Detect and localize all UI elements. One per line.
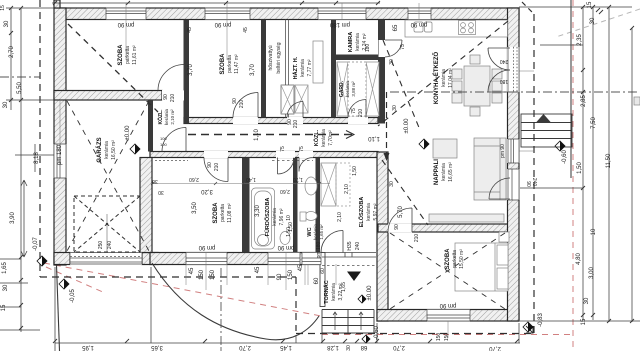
- garage door opening: [70, 252, 142, 265]
- dim label 3,00 at 593,273: [589, 267, 595, 279]
- dim label 180 at 504,80: [500, 78, 509, 84]
- roof diagonal szoba1: [68, 24, 158, 112]
- svg-text:30: 30: [389, 59, 395, 65]
- wc toilet: [305, 212, 317, 221]
- svg-text:3,20: 3,20: [201, 188, 213, 194]
- svg-text:ELŐSZOBA: ELŐSZOBA: [358, 197, 365, 228]
- svg-text:1,28: 1,28: [327, 344, 339, 350]
- wall hazt east: [331, 20, 336, 118]
- label pm000 nappali: [404, 118, 410, 134]
- level mark -060 right: [555, 141, 565, 151]
- door arc hazt: [287, 102, 303, 118]
- svg-text:30: 30: [389, 181, 395, 187]
- label heatpump: [268, 42, 282, 73]
- washbasin furdo: [280, 232, 290, 245]
- svg-text:180: 180: [365, 44, 371, 53]
- dim label pm 90 at 419,23: [410, 21, 427, 27]
- door arcs french kitchen: [488, 48, 510, 70]
- shaft niche lines: [286, 20, 289, 118]
- dim label 1,28 at 333,346: [327, 344, 339, 350]
- svg-text:pm 90: pm 90: [439, 302, 456, 308]
- dim label 7,50 at 595,123: [591, 117, 597, 129]
- svg-text:30: 30: [590, 17, 596, 24]
- label nappali: [434, 159, 454, 185]
- svg-text:2,60: 2,60: [280, 188, 290, 194]
- door arc wc: [299, 158, 313, 172]
- dim label 45 at 259,270: [255, 266, 261, 273]
- window top 1: [106, 8, 146, 21]
- dim label 5,70 at 402,212: [398, 206, 404, 218]
- svg-text:11,50: 11,50: [606, 153, 612, 168]
- svg-text:kerámia: kerámia: [164, 109, 169, 126]
- dim label 60 at 324,271: [320, 268, 326, 274]
- dim label 1,10 at 374,137: [368, 135, 380, 141]
- dim label 30 at 594,21: [590, 17, 596, 24]
- gard wardrobe 2: [366, 62, 379, 116]
- svg-text:1,70: 1,70: [293, 176, 303, 182]
- svg-text:pm 180: pm 180: [57, 144, 63, 165]
- svg-text:2,70: 2,70: [239, 344, 251, 350]
- level mark -005: [59, 279, 69, 289]
- svg-text:HÁZT. H.: HÁZT. H.: [292, 56, 299, 79]
- entry door porch: [322, 253, 376, 258]
- section line left: [0, 76, 40, 78]
- svg-text:2,70: 2,70: [393, 344, 405, 350]
- svg-text:17,04 m²: 17,04 m²: [448, 68, 454, 88]
- svg-text:5,97 m²: 5,97 m²: [373, 203, 379, 220]
- door corridor to wc: [299, 151, 313, 158]
- dim label pm 180 at 320,250: [316, 241, 322, 258]
- chairs left: [452, 69, 462, 79]
- svg-text:180: 180: [500, 78, 509, 84]
- svg-text:90: 90: [277, 273, 283, 280]
- svg-text:SZOBA: SZOBA: [118, 44, 124, 66]
- wall wc/eloszoba: [316, 158, 321, 253]
- svg-text:1,50: 1,50: [352, 166, 358, 176]
- dim connectors right: [519, 7, 640, 321]
- window top 4: [408, 8, 431, 21]
- svg-text:KONYHA-ÉTKEZŐ: KONYHA-ÉTKEZŐ: [432, 52, 440, 105]
- svg-text:45: 45: [298, 264, 304, 271]
- left margin dims: [4, 20, 10, 27]
- dim label -0,60 at 378,333: [374, 326, 380, 340]
- svg-text:TORNÁC: TORNÁC: [323, 280, 330, 303]
- bed: [455, 243, 508, 291]
- window south bedroom: [427, 309, 470, 322]
- svg-text:75: 75: [299, 146, 305, 152]
- wc sink: [305, 177, 317, 195]
- svg-text:2,70: 2,70: [9, 46, 15, 58]
- dim label 1,70 at 282,178: [293, 176, 303, 182]
- dim label 90 at 236,101: [232, 98, 238, 104]
- svg-text:2,10: 2,10: [344, 184, 350, 194]
- svg-text:150: 150: [199, 269, 205, 280]
- dining table: [464, 66, 490, 106]
- interior dims: [188, 64, 194, 76]
- svg-text:beltéri egység: beltéri egység: [276, 42, 282, 73]
- svg-text:210: 210: [414, 234, 420, 243]
- eave dashed south garage: [40, 276, 296, 278]
- label gard: [339, 80, 356, 97]
- kitchen counter: [405, 20, 508, 37]
- dim ticks right: [581, 5, 634, 323]
- wall furdo/wc: [293, 158, 298, 253]
- svg-text:7,50: 7,50: [591, 117, 597, 129]
- wardrobe eloszoba: [321, 163, 336, 206]
- svg-text:SZOBA: SZOBA: [220, 53, 226, 75]
- svg-text:90: 90: [394, 224, 400, 230]
- svg-text:150: 150: [288, 269, 294, 280]
- sink: [414, 22, 423, 32]
- svg-text:10: 10: [286, 215, 292, 221]
- dim label 150 at 448,337: [444, 333, 450, 342]
- eave dashed east: [533, 14, 535, 334]
- wall tornac west: [320, 253, 325, 307]
- door labels: [163, 94, 169, 100]
- dim label 2,70 at 495,347: [489, 345, 501, 351]
- dim label 1,50 at 292,227: [288, 222, 294, 232]
- dim label 1,45 at 286,346: [280, 344, 292, 350]
- svg-text:kerámia: kerámia: [355, 33, 361, 51]
- dim label 3,50 at 196,208: [192, 202, 198, 214]
- dim label 90 at 211,165: [207, 162, 213, 168]
- svg-text:240: 240: [531, 178, 537, 187]
- svg-text:FÜRDŐSZOBA: FÜRDŐSZOBA: [264, 198, 271, 237]
- dim label 210 at 243,104: [239, 100, 245, 109]
- dim label 68 at 364,346: [360, 344, 367, 350]
- dim label 150 at 214,275: [210, 269, 216, 280]
- section line right: [390, 91, 640, 93]
- dim label 30 at 588,301: [584, 297, 590, 304]
- eave dashed corner NE: [522, 2, 534, 14]
- eave dashed tornac vertical: [295, 277, 297, 331]
- label szoba3: [213, 202, 233, 224]
- svg-text:250: 250: [98, 241, 104, 250]
- eave dashed south east: [296, 333, 534, 335]
- car dashed box: [74, 196, 140, 252]
- svg-text:2,70: 2,70: [489, 345, 501, 351]
- svg-text:-0,60: -0,60: [562, 150, 568, 164]
- door arc kamra: [385, 40, 402, 57]
- svg-text:68: 68: [360, 344, 367, 350]
- label kozl2: [157, 109, 175, 126]
- wall east: [508, 8, 520, 321]
- svg-text:65: 65: [393, 24, 399, 31]
- svg-text:-0,05: -0,05: [70, 289, 76, 303]
- window east nappali: [507, 139, 520, 163]
- dim label 210 at 418,238: [414, 234, 420, 243]
- dim label 2,10 at 341,217: [337, 212, 343, 222]
- svg-text:pm 90: pm 90: [277, 244, 294, 250]
- dim chain left inner: [11, 8, 21, 332]
- driveway axis: [220, 268, 222, 347]
- door arc szoba1: [158, 65, 184, 91]
- svg-text:8,18: 8,18: [34, 152, 40, 164]
- south facade dim extenders: [186, 264, 336, 285]
- svg-text:SZOBA: SZOBA: [445, 248, 451, 270]
- label hazt: [292, 56, 313, 79]
- svg-text:1,65: 1,65: [2, 262, 8, 274]
- dim label -0,05 at 74,296: [70, 289, 76, 303]
- wall west of bedroom block: [377, 152, 388, 321]
- svg-text:210: 210: [239, 100, 245, 109]
- dim label 90 at 291,122: [287, 119, 293, 125]
- east wall labels: [500, 144, 506, 158]
- door corridor to szoba2: [233, 117, 258, 124]
- dim label 180 at 369,48: [365, 44, 371, 53]
- dim label 150 at 440,337: [436, 333, 442, 342]
- window top 3: [318, 8, 366, 21]
- svg-text:45: 45: [243, 27, 249, 33]
- svg-text:parketta: parketta: [125, 46, 131, 64]
- dim extenders bottom: [55, 267, 519, 351]
- svg-text:75: 75: [280, 146, 286, 152]
- svg-text:210: 210: [214, 163, 220, 172]
- label konyha: [432, 52, 454, 105]
- svg-text:2,60: 2,60: [189, 176, 199, 182]
- left garage door label: [57, 144, 63, 165]
- svg-text:1,95: 1,95: [82, 344, 94, 350]
- svg-text:30: 30: [4, 20, 10, 27]
- svg-text:90: 90: [232, 98, 238, 104]
- dim label 2,70 at 399,346: [393, 344, 405, 350]
- dim label 75 at 303,164: [299, 146, 305, 152]
- wall nappali/szoba4: [378, 224, 508, 232]
- svg-text:pm 90: pm 90: [410, 21, 427, 27]
- door arc nappali-szoba4: [388, 208, 412, 232]
- top window labels reversed: [117, 21, 134, 27]
- dim label 1,50 at 290,232: [286, 227, 292, 237]
- wall garage east lower: [140, 158, 152, 253]
- hazt washer: [295, 85, 308, 113]
- wall corridor north: [184, 118, 378, 124]
- wall garage east upper: [148, 100, 153, 152]
- svg-text:pm 180: pm 180: [316, 241, 322, 258]
- svg-text:kerámia: kerámia: [331, 283, 337, 301]
- hazt counter: [313, 41, 323, 83]
- dim label 30 at 350,348: [346, 345, 352, 351]
- roof diagonal szoba4 X: [390, 233, 505, 309]
- tv board: [429, 214, 504, 222]
- label kamra: [348, 32, 368, 52]
- svg-text:±0.00: ±0.00: [125, 125, 131, 141]
- dim label 1,10 at 258,135: [254, 129, 260, 141]
- red dashed boundary right: [572, 0, 574, 351]
- dim label 210 at 218,167: [214, 163, 220, 172]
- dim label 30 at 393,184: [389, 181, 395, 187]
- dim label 75 at 355,111: [351, 108, 357, 114]
- svg-text:-0,07: -0,07: [33, 237, 39, 251]
- sofa: [474, 138, 506, 200]
- window south 2: [268, 252, 300, 265]
- dim label pm 90 at 223,23: [214, 21, 231, 27]
- svg-text:30: 30: [158, 189, 164, 195]
- svg-text:150: 150: [436, 333, 442, 342]
- dim label 2,10 at 348,189: [344, 184, 350, 194]
- svg-text:7,70m²: 7,70m²: [328, 130, 334, 146]
- svg-text:3,70: 3,70: [250, 64, 256, 76]
- svg-text:60: 60: [320, 268, 326, 274]
- dim label 15 at 4,8: [0, 5, 6, 11]
- bottom dims upside down: [82, 344, 94, 350]
- corridor centerline: [188, 134, 352, 136]
- door left garage side: [54, 144, 67, 178]
- level mark tornac: [358, 295, 366, 303]
- roof diagonal garage X: [67, 101, 149, 251]
- porch dotted edge: [322, 265, 376, 267]
- svg-text:10: 10: [591, 228, 597, 235]
- wall south garage: [54, 253, 70, 265]
- dim label 45 at 247,30: [243, 27, 249, 33]
- label szoba2: [220, 53, 240, 75]
- svg-text:5,50: 5,50: [17, 82, 23, 94]
- svg-text:16,50 m²: 16,50 m²: [111, 140, 117, 160]
- dim chain right: [583, 7, 632, 322]
- window south wc: [302, 252, 321, 265]
- svg-text:-0,83: -0,83: [538, 313, 544, 327]
- dim label 60 at 318,281: [314, 277, 320, 284]
- dim label 4,80 at 580,259: [576, 253, 582, 265]
- svg-text:1,10: 1,10: [368, 135, 380, 141]
- svg-text:16,65 m²: 16,65 m²: [448, 162, 454, 182]
- south facade segment dims: [189, 267, 195, 274]
- svg-text:2,35: 2,35: [577, 34, 583, 46]
- steps east: [521, 114, 572, 147]
- svg-text:210: 210: [293, 120, 299, 129]
- svg-text:KÖZL.: KÖZL.: [157, 109, 164, 125]
- label kozl7: [313, 129, 334, 147]
- svg-text:pm 90: pm 90: [500, 144, 506, 158]
- door corridor to szoba3: [204, 151, 228, 158]
- red dashed eave diagonal sw: [44, 263, 321, 316]
- svg-text:7,96 m²: 7,96 m²: [279, 208, 285, 225]
- door arc entry: [321, 231, 343, 253]
- door arc gard: [348, 100, 366, 118]
- svg-text:15: 15: [1, 304, 7, 311]
- nightstand: [499, 232, 509, 242]
- svg-text:3,50: 3,50: [192, 202, 198, 214]
- south window labels reversed: [198, 244, 215, 250]
- dim label 2,70 at 245,346: [239, 344, 251, 350]
- dim label 210 at 174,98: [170, 94, 176, 103]
- svg-text:11,08 m²: 11,08 m²: [227, 203, 233, 223]
- svg-text:100: 100: [160, 142, 167, 147]
- dim label 150 at 292,275: [288, 269, 294, 280]
- eave corner arrow SE: [526, 326, 533, 333]
- window south 1: [186, 252, 227, 265]
- dim ticks left: [9, 6, 23, 330]
- svg-text:7,77 m²: 7,77 m²: [307, 59, 313, 76]
- svg-text:45: 45: [187, 27, 193, 33]
- dim label 15 at 591,5: [587, 1, 593, 8]
- right margin dims: [577, 34, 583, 46]
- svg-text:45: 45: [255, 266, 261, 273]
- dim label 10 at 595,232: [591, 228, 597, 235]
- stove: [459, 21, 476, 35]
- label pm000 tornac: [367, 285, 373, 301]
- svg-text:15: 15: [0, 5, 6, 11]
- ridge dashed vertical: [386, 92, 388, 158]
- red dashed eave diagonal upper: [46, 267, 105, 293]
- dim label 1,40 at 251,178: [246, 176, 256, 182]
- gard middle dashed: [348, 62, 366, 116]
- door corridor to gard: [348, 117, 368, 124]
- heat pump unit: [281, 85, 294, 114]
- level mark -060 tornac: [362, 335, 370, 343]
- svg-text:1,50: 1,50: [577, 162, 583, 174]
- level mark -007: [37, 256, 47, 266]
- svg-text:100: 100: [160, 136, 167, 141]
- dim label 240 at 359,246: [355, 242, 361, 251]
- svg-text:30: 30: [3, 284, 9, 291]
- svg-text:240: 240: [355, 242, 361, 251]
- chairs right: [492, 69, 502, 79]
- dim label 3,20 at 207,190: [201, 188, 213, 194]
- svg-text:pm 90: pm 90: [198, 244, 215, 250]
- section marker box: [634, 97, 640, 105]
- dim label pm 90 at 448,304: [439, 302, 456, 308]
- dim label 100 at 160,140: [160, 136, 167, 141]
- wall top: [55, 8, 519, 20]
- wall kamra-gard east: [378, 20, 385, 124]
- dim line top: [52, 2, 380, 4]
- level mark -083: [523, 322, 533, 332]
- svg-text:2,85: 2,85: [581, 95, 587, 107]
- wall corridor south: [150, 152, 378, 158]
- svg-text:-0,60: -0,60: [374, 326, 380, 340]
- label szoba4: [445, 248, 465, 270]
- svg-text:75: 75: [400, 44, 406, 50]
- wall szoba2 east inner: [261, 20, 266, 118]
- svg-text:kerámia: kerámia: [321, 129, 327, 147]
- kozl2 dotted: [155, 160, 188, 162]
- svg-text:H35: H35: [347, 241, 353, 250]
- dim label 3,90 at 14,218: [10, 212, 16, 224]
- svg-text:45: 45: [189, 267, 195, 274]
- dim label 30 at 393,62: [389, 59, 395, 65]
- label pm000 garage: [125, 125, 131, 141]
- svg-text:SZOBA: SZOBA: [213, 202, 219, 224]
- dim label 240 at 111,245: [107, 241, 113, 250]
- svg-text:4,80: 4,80: [576, 253, 582, 265]
- door arc szoba2: [233, 93, 258, 118]
- svg-text:kerámia: kerámia: [366, 203, 372, 221]
- svg-text:1,65 m²: 1,65 m²: [319, 224, 324, 240]
- dim label 240 at 533,182: [531, 178, 537, 187]
- label szoba1: [118, 44, 138, 66]
- svg-text:15,50 m²: 15,50 m²: [459, 249, 465, 269]
- door kamra: [379, 40, 386, 57]
- svg-text:3,70: 3,70: [188, 64, 194, 76]
- driveway curve left: [57, 265, 60, 351]
- dim label 5,50 at 21,88: [17, 82, 23, 94]
- door arc szoba3: [204, 158, 228, 182]
- svg-text:kerámia: kerámia: [272, 208, 278, 226]
- svg-text:2,10: 2,10: [337, 212, 343, 222]
- dim label 45 at 302,268: [298, 264, 304, 271]
- door east nappali: [507, 169, 520, 200]
- dim label 75 at 283,163: [280, 146, 286, 152]
- svg-text:3,65: 3,65: [151, 344, 163, 350]
- svg-text:3,00: 3,00: [589, 267, 595, 279]
- wall south middle: [150, 253, 322, 265]
- chair top: [470, 55, 480, 64]
- roof diagonal kitchen: [378, 21, 508, 126]
- svg-text:KAMRA: KAMRA: [348, 32, 354, 52]
- door corridor to furdo: [276, 151, 295, 158]
- tv table: [433, 139, 457, 158]
- roof diagonal valley: [383, 40, 420, 130]
